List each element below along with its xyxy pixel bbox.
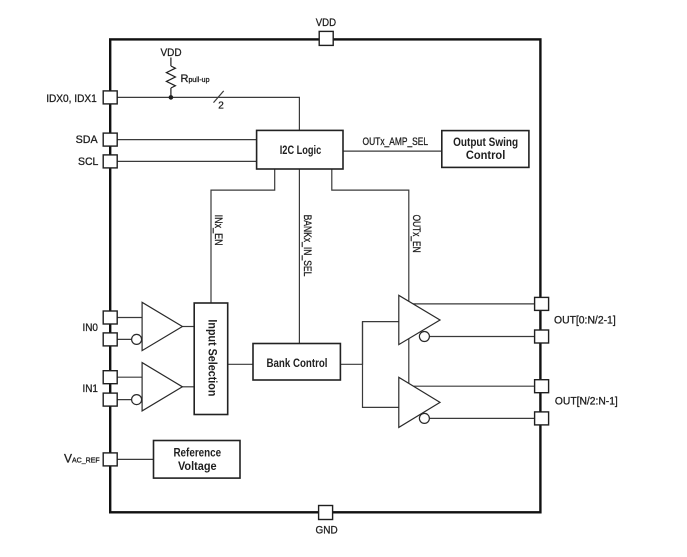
- pad IN1 complement: [103, 393, 117, 406]
- svg-text:INx_EN: INx_EN: [212, 215, 224, 246]
- Output Swing Control block: [442, 131, 529, 168]
- svg-text:BANKx_IN_SEL: BANKx_IN_SEL: [301, 215, 313, 277]
- input buffer A1 inversion bubble: [132, 334, 142, 344]
- pad SCL: [103, 155, 117, 168]
- wire OUT bank1 complement output: [429, 336, 534, 338]
- pad IN0 complement: [103, 333, 117, 346]
- wire SCL to I2C Logic: [110, 160, 256, 162]
- wire BANKx_IN_SEL: [298, 169, 300, 344]
- input buffer A1: [142, 302, 182, 350]
- wire Bank Control to output buffers split: [340, 322, 398, 365]
- I2C Logic block: [257, 130, 343, 169]
- wire OUT bank2 true output: [405, 385, 535, 387]
- wire IDX bus to I2C Logic: [110, 97, 299, 130]
- pad IDX0 IDX1: [103, 91, 117, 104]
- input buffer A2: [142, 363, 182, 411]
- svg-text:IN0: IN0: [82, 322, 98, 334]
- bus width slash: [214, 91, 224, 103]
- output buffer B2: [399, 377, 440, 427]
- svg-text:Bank Control: Bank Control: [267, 358, 328, 370]
- wire input buffer A1 to Input Selection: [182, 326, 194, 328]
- wire split to output buffer B2: [363, 322, 399, 408]
- pad GND: [319, 506, 333, 520]
- wire IN1 noninverting input: [110, 376, 142, 378]
- resistor R_pull-up: [166, 58, 175, 98]
- wire IN1 inverting input: [110, 399, 132, 401]
- wire OUT bank2 complement output: [429, 417, 534, 419]
- Reference Voltage block: [154, 441, 241, 479]
- pad VAC_REF: [103, 453, 117, 466]
- pad OUT bank1 complement: [535, 330, 549, 343]
- svg-text:VDD: VDD: [316, 17, 336, 29]
- svg-text:I2C Logic: I2C Logic: [280, 145, 322, 157]
- svg-text:Output Swing: Output Swing: [453, 137, 518, 149]
- pad IN0 true: [103, 311, 117, 324]
- pad OUT bank1 true: [535, 297, 549, 310]
- svg-text:Voltage: Voltage: [178, 461, 217, 473]
- junction dot: [169, 95, 174, 100]
- output buffer B1 inversion bubble: [419, 332, 429, 342]
- svg-text:IN1: IN1: [82, 383, 98, 395]
- wire IN0 noninverting input: [110, 317, 142, 319]
- svg-text:Input Selection: Input Selection: [206, 319, 218, 396]
- svg-text:Control: Control: [466, 150, 505, 162]
- svg-text:VDD: VDD: [160, 47, 181, 59]
- wire IN0 inverting input: [110, 338, 132, 340]
- wire OUTx_EN: [332, 169, 409, 384]
- chip boundary: [110, 39, 540, 512]
- svg-text:IDX0, IDX1: IDX0, IDX1: [46, 93, 97, 105]
- pad OUT bank2 complement: [535, 412, 549, 425]
- Input Selection block: [194, 303, 228, 415]
- wire input buffer A2 to Input Selection: [182, 386, 194, 388]
- pad OUT bank2 true: [535, 380, 549, 393]
- wire SDA to I2C Logic: [110, 139, 256, 141]
- output buffer B2 inversion bubble: [419, 413, 429, 423]
- svg-text:OUT[0:N/2-1]: OUT[0:N/2-1]: [554, 315, 616, 327]
- svg-text:Reference: Reference: [173, 447, 221, 459]
- pad VDD: [319, 31, 333, 45]
- svg-text:OUT[N/2:N-1]: OUT[N/2:N-1]: [555, 396, 618, 408]
- pad SDA: [103, 133, 117, 146]
- input buffer A2 inversion bubble: [132, 395, 142, 405]
- wire OUTx_AMP_SEL: [343, 150, 442, 152]
- svg-text:GND: GND: [316, 525, 338, 537]
- output buffer B1: [399, 295, 440, 344]
- wire VAC_REF to Reference Voltage: [110, 458, 153, 460]
- wire OUT bank1 true output: [405, 303, 535, 305]
- svg-text:SDA: SDA: [76, 134, 99, 146]
- svg-text:OUTx_AMP_SEL: OUTx_AMP_SEL: [363, 136, 429, 148]
- svg-text:OUTx_EN: OUTx_EN: [410, 215, 422, 253]
- wire INx_EN: [211, 169, 275, 303]
- pad IN1 true: [103, 371, 117, 384]
- wire Input Selection to Bank Control: [228, 363, 253, 365]
- svg-text:SCL: SCL: [78, 156, 98, 168]
- Bank Control block: [253, 344, 340, 381]
- svg-text:2: 2: [218, 100, 224, 111]
